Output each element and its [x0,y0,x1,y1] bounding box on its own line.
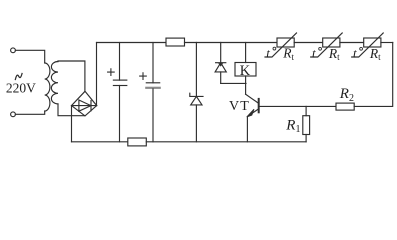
diode VD cathode bar [216,62,226,64]
wire: bridge negative (left vertex) down to bottom rail [71,106,73,142]
svg-text:t: t [266,45,270,60]
bridge rectifier internal diode line [72,105,97,107]
svg-text:t: t [312,46,316,61]
capacitor C2 negative plate [146,87,159,89]
thermistor Rt3 box [364,38,381,47]
label ~ (AC) [15,73,22,80]
thermistor Rt1 diagonal [265,33,297,57]
wire: top rail (filter resistor to thermistor chain) [185,42,278,44]
thermistor Rt2 box [323,38,340,47]
zener diode VS triangle [191,96,202,105]
resistor R2 box [336,103,354,110]
thermistor Rt1 box [277,38,294,47]
svg-text:220V: 220V [6,81,36,96]
svg-text:t: t [353,46,357,61]
wire: secondary bottom lead to bridge bottom vertex [58,104,85,116]
AC input terminal (top circle) [11,48,16,53]
svg-text:VT: VT [229,99,250,114]
transformer primary winding [45,63,50,111]
capacitor C2 plus sign [140,73,147,80]
wire: R1 bottom lead [305,135,307,142]
wire: secondary top lead to bridge top vertex [58,61,85,91]
wire: diode VD anode to relay node [221,82,246,84]
resistor (filter, top rail) [166,38,185,46]
transformer secondary winding [51,62,58,104]
wire: relay K top to rail [245,43,247,63]
wire: C2 bottom lead [152,89,154,142]
capacitor C1 positive plate [113,79,126,81]
relay coil K box [235,63,256,77]
svg-text:K: K [240,63,251,79]
wire: bottom terminal to transformer primary [15,112,44,115]
capacitor C1 plus sign [108,69,115,76]
wire: bottom rail (bridge to filter resistor) [72,141,128,143]
wire: top rail (left section to filter resistor) [97,42,167,44]
diode VD wire [220,43,222,84]
bridge rectifier internal diode triangle [79,100,91,111]
transistor VT emitter arrow [247,109,254,117]
diode VD apex fill [218,63,223,66]
wire: bridge positive (right vertex) up to top rail [96,43,98,106]
wire: base line from VT to R2 [260,105,337,107]
transistor VT emitter lead [247,109,258,142]
wire: rail between Rt2 and Rt3 [340,42,364,44]
wire: rail Rt3 to top-right corner [381,42,393,44]
thermistor Rt3 diagonal [352,33,384,57]
thermistor Rt2 diagonal [311,33,343,57]
wire: C1 bottom lead [119,86,121,142]
transistor VT base bar [258,99,260,112]
zener diode VS wire (top rail to bottom rail) [195,43,197,142]
capacitor C2 positive plate [146,82,159,84]
wire: relay K bottom to collector node [245,76,247,94]
capacitor C1 negative plate [113,85,126,87]
AC input terminal (bottom circle) [11,112,16,117]
wire: rail between Rt1 and Rt2 [294,42,323,44]
wire: C1 top lead [119,43,121,81]
transistor VT collector lead [246,94,259,103]
wire: bottom rail (filter resistor to R1) [146,141,306,143]
zener diode VS cathode bar with tail [190,93,203,96]
bridge rectifier (diamond) [72,91,97,116]
resistor R1 box [303,116,310,135]
wire: R2 right to right-side riser [354,43,393,107]
wire: top terminal to transformer primary [15,50,44,62]
wire: C2 top lead [152,43,154,83]
resistor (filter, bottom rail) [128,138,147,146]
bridge rectifier internal diode bar [90,101,92,111]
diode VD triangle [215,63,226,72]
wire: R1 top lead [305,106,307,115]
